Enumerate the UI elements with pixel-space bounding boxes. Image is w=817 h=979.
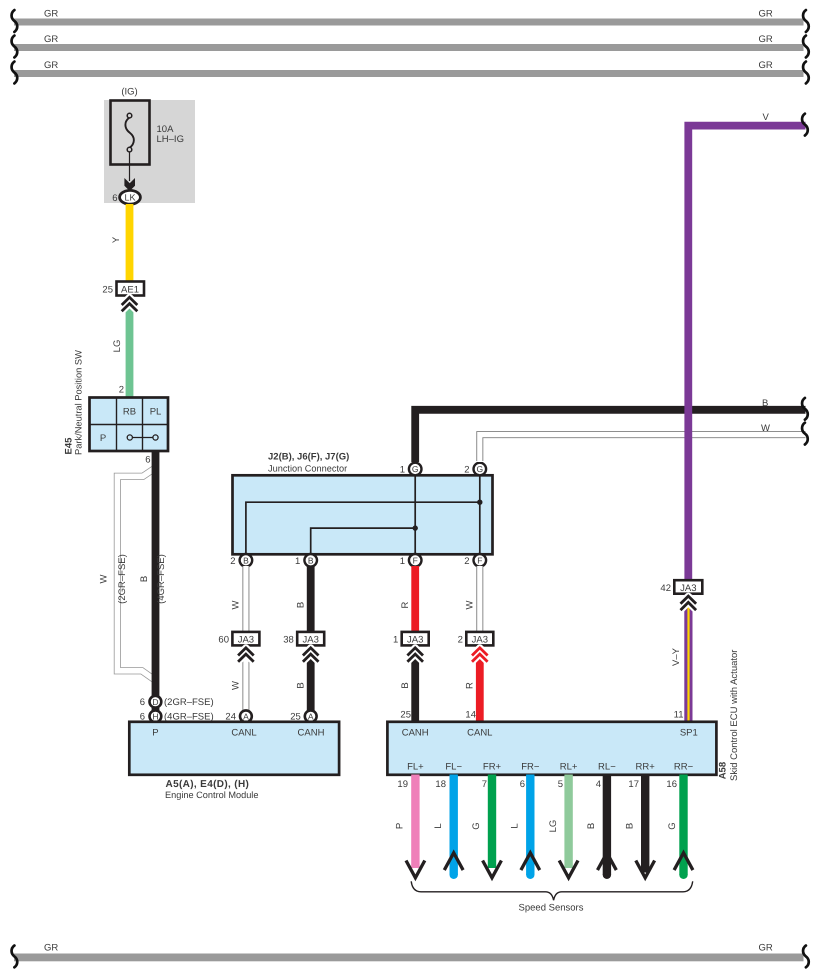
wire W horizontal top right into 2G bbox=[480, 435, 806, 462]
svg-text:P: P bbox=[395, 823, 406, 829]
svg-text:42: 42 bbox=[660, 583, 671, 594]
svg-text:J2(B), J6(F), J7(G): J2(B), J6(F), J7(G) bbox=[268, 452, 349, 463]
pin 1 F bbox=[400, 554, 422, 567]
svg-text:CANH: CANH bbox=[298, 728, 325, 739]
wire W from 2F to 2 JA3 bbox=[476, 566, 483, 632]
speed sensor wire FR- pin 6 (L blue) bbox=[510, 775, 540, 880]
wire W from 2B to 60 JA3 bbox=[242, 566, 249, 632]
svg-text:A: A bbox=[308, 711, 314, 721]
svg-text:B: B bbox=[400, 682, 411, 688]
svg-text:2: 2 bbox=[458, 635, 463, 646]
pin 2 B bbox=[230, 554, 252, 567]
svg-text:6: 6 bbox=[140, 697, 145, 708]
svg-text:B: B bbox=[308, 556, 314, 566]
svg-text:Park/Neutral Position SW: Park/Neutral Position SW bbox=[74, 350, 84, 455]
skid control ECU A58 bbox=[387, 722, 716, 775]
fuse block shaded area bbox=[104, 100, 195, 203]
chevron mark 1 JA3 bbox=[407, 648, 423, 662]
svg-text:Speed Sensors: Speed Sensors bbox=[519, 903, 584, 914]
svg-text:GR: GR bbox=[44, 34, 58, 45]
speed sensor wire RL- pin 4 (B black) bbox=[586, 775, 616, 880]
wire B horizontal top right into 1G bbox=[415, 410, 805, 462]
svg-text:W: W bbox=[761, 423, 770, 434]
svg-text:CANL: CANL bbox=[231, 728, 256, 739]
svg-text:LH–IG: LH–IG bbox=[157, 134, 184, 145]
svg-text:L: L bbox=[433, 823, 444, 828]
svg-text:RB: RB bbox=[123, 407, 136, 418]
wire W from 60 JA3 to 24 A bbox=[242, 646, 249, 711]
wire B from 38 JA3 to 25 A bbox=[307, 646, 315, 711]
speed sensor wire FR+ pin 7 (G green) bbox=[471, 775, 501, 878]
svg-text:2: 2 bbox=[119, 385, 124, 396]
svg-text:GR: GR bbox=[44, 9, 58, 20]
chevron mark 38 JA3 bbox=[303, 648, 319, 662]
svg-text:A: A bbox=[243, 711, 249, 721]
svg-text:G: G bbox=[471, 822, 482, 829]
speed sensor wire FL- pin 18 (L blue) bbox=[433, 775, 463, 880]
svg-text:D: D bbox=[152, 697, 158, 707]
connector 2 JA3 bbox=[458, 632, 494, 646]
svg-text:(2GR–FSE): (2GR–FSE) bbox=[164, 697, 214, 708]
break squiggle left bar3 bbox=[12, 62, 18, 84]
svg-text:B: B bbox=[295, 682, 306, 688]
junction connector J2(B), J6(F), J7(G) bbox=[233, 452, 493, 555]
svg-text:5: 5 bbox=[558, 779, 563, 790]
wire B (black) switch pin 6 down to H bbox=[152, 451, 160, 717]
svg-text:GR: GR bbox=[44, 943, 58, 954]
break squiggle left bar2 bbox=[12, 36, 18, 58]
connector 42 JA3 bbox=[660, 580, 702, 594]
svg-text:R: R bbox=[464, 682, 475, 689]
break squiggle left bar1 bbox=[12, 10, 18, 32]
svg-text:JA3: JA3 bbox=[303, 635, 319, 646]
svg-text:G: G bbox=[667, 822, 678, 829]
connector 6 D (2GR-FSE) bbox=[140, 696, 214, 708]
connector 6 H (4GR-FSE) bbox=[140, 710, 214, 722]
connector 60 JA3 bbox=[218, 632, 259, 646]
svg-text:GR: GR bbox=[759, 60, 773, 71]
connector 6 LK bbox=[112, 190, 140, 204]
ground bus bar GR 1 bbox=[14, 9, 804, 26]
wire fuse to LK bbox=[129, 152, 131, 182]
svg-text:JA3: JA3 bbox=[407, 635, 423, 646]
svg-text:B: B bbox=[243, 556, 249, 566]
svg-text:RR−: RR− bbox=[674, 762, 694, 773]
svg-text:W: W bbox=[98, 574, 109, 583]
svg-text:LK: LK bbox=[124, 193, 135, 203]
wire Y (yellow) LK to AE1 bbox=[126, 204, 134, 282]
svg-text:RR+: RR+ bbox=[636, 762, 656, 773]
connector 25 A bbox=[290, 710, 316, 722]
connector 25 AE1 bbox=[102, 282, 144, 296]
connector 38 JA3 bbox=[283, 632, 324, 646]
chevron mark 60 JA3 bbox=[238, 648, 254, 662]
svg-text:H: H bbox=[152, 711, 158, 721]
break squiggle right bottom bbox=[803, 946, 809, 968]
pin 2 F bbox=[464, 554, 486, 567]
svg-text:14: 14 bbox=[465, 710, 476, 721]
pin 1 G bbox=[400, 463, 422, 476]
svg-text:V: V bbox=[763, 112, 770, 123]
wire B from 1 JA3 to 25 CANH bbox=[411, 646, 419, 722]
ground bus bar GR 2 bbox=[14, 34, 804, 51]
svg-text:GR: GR bbox=[44, 60, 58, 71]
svg-text:FL+: FL+ bbox=[407, 762, 424, 773]
svg-text:1: 1 bbox=[400, 465, 405, 476]
svg-text:(4GR–FSE): (4GR–FSE) bbox=[156, 554, 167, 604]
wire W (2GR-FSE) hollow white band bbox=[117, 467, 157, 682]
svg-text:Skid Control ECU with Actuator: Skid Control ECU with Actuator bbox=[729, 650, 740, 781]
svg-text:P: P bbox=[152, 728, 158, 739]
svg-text:FR−: FR− bbox=[521, 762, 540, 773]
speed sensors brace bbox=[411, 881, 693, 900]
svg-text:(IG): (IG) bbox=[121, 87, 137, 98]
svg-text:CANL: CANL bbox=[467, 728, 492, 739]
svg-text:18: 18 bbox=[435, 779, 446, 790]
switch E45 Park/Neutral Position SW bbox=[90, 398, 169, 452]
svg-text:1: 1 bbox=[400, 556, 405, 567]
break squiggle W right bbox=[802, 423, 808, 445]
chevron mark AE1 bbox=[122, 297, 138, 311]
svg-text:1: 1 bbox=[393, 635, 398, 646]
svg-text:6: 6 bbox=[145, 455, 150, 466]
svg-text:A58: A58 bbox=[718, 762, 729, 779]
speed sensor wire RR- pin 16 (G green) bbox=[666, 775, 692, 880]
break squiggle B right bbox=[802, 398, 808, 420]
svg-text:P: P bbox=[100, 433, 106, 444]
svg-text:25: 25 bbox=[400, 710, 411, 721]
wire V-Y (violet/yellow) 42 JA3 to 11 SP1 bbox=[684, 595, 692, 723]
svg-text:L: L bbox=[510, 823, 521, 828]
svg-text:2: 2 bbox=[464, 465, 469, 476]
svg-text:7: 7 bbox=[482, 779, 487, 790]
fuse F1 10A LH-IG bbox=[111, 101, 184, 165]
svg-text:38: 38 bbox=[283, 635, 294, 646]
svg-text:RL−: RL− bbox=[598, 762, 616, 773]
svg-text:JA3: JA3 bbox=[472, 635, 488, 646]
svg-text:F: F bbox=[477, 556, 482, 566]
svg-text:25: 25 bbox=[102, 285, 113, 296]
svg-text:4: 4 bbox=[596, 779, 601, 790]
svg-text:JA3: JA3 bbox=[680, 583, 696, 594]
svg-text:6: 6 bbox=[520, 779, 525, 790]
svg-text:G: G bbox=[412, 464, 419, 474]
svg-text:2: 2 bbox=[464, 556, 469, 567]
svg-text:17: 17 bbox=[628, 779, 639, 790]
svg-text:CANH: CANH bbox=[402, 728, 429, 739]
svg-text:Junction Connector: Junction Connector bbox=[268, 464, 347, 474]
svg-text:FR+: FR+ bbox=[483, 762, 502, 773]
svg-text:F: F bbox=[413, 556, 418, 566]
ground bus bar GR bottom bbox=[14, 943, 804, 962]
svg-text:FL−: FL− bbox=[445, 762, 462, 773]
break squiggle right bar2 bbox=[803, 36, 809, 58]
svg-text:11: 11 bbox=[674, 710, 684, 721]
svg-text:LG: LG bbox=[112, 340, 123, 353]
chevron mark 42 JA3 bbox=[681, 596, 697, 610]
break squiggle right bar1 bbox=[803, 10, 809, 32]
connector 1 JA3 bbox=[393, 632, 429, 646]
svg-text:A5(A), E4(D), (H): A5(A), E4(D), (H) bbox=[166, 779, 250, 790]
svg-text:6: 6 bbox=[112, 193, 117, 204]
ECM A5(A), E4(D), (H) bbox=[129, 722, 339, 800]
svg-text:B: B bbox=[762, 398, 768, 409]
svg-text:60: 60 bbox=[218, 635, 229, 646]
svg-text:PL: PL bbox=[150, 407, 162, 418]
svg-text:1: 1 bbox=[295, 556, 300, 567]
svg-text:V–Y: V–Y bbox=[671, 647, 682, 666]
svg-text:R: R bbox=[400, 601, 411, 608]
svg-text:GR: GR bbox=[759, 943, 773, 954]
svg-text:(2GR–FSE): (2GR–FSE) bbox=[117, 554, 128, 604]
svg-text:GR: GR bbox=[759, 34, 773, 45]
svg-text:SP1: SP1 bbox=[680, 728, 698, 739]
svg-text:Y: Y bbox=[111, 236, 122, 243]
svg-text:W: W bbox=[464, 600, 475, 609]
svg-text:G: G bbox=[476, 464, 483, 474]
chevron mark 2 JA3 bbox=[472, 648, 488, 662]
speed sensor wire RL+ pin 5 (LG light green) bbox=[548, 775, 578, 878]
wire B from 1B to 38 JA3 bbox=[307, 566, 315, 632]
svg-text:W: W bbox=[231, 681, 242, 690]
ground bus bar GR 3 bbox=[14, 60, 804, 77]
svg-text:Engine Control Module: Engine Control Module bbox=[165, 790, 258, 800]
svg-text:B: B bbox=[586, 823, 597, 829]
svg-text:16: 16 bbox=[666, 779, 677, 790]
speed sensor wire RR+ pin 17 (B black) bbox=[624, 775, 654, 878]
arrow into LK bbox=[124, 178, 135, 191]
svg-text:JA3: JA3 bbox=[238, 635, 254, 646]
svg-text:B: B bbox=[624, 823, 635, 829]
svg-text:W: W bbox=[231, 600, 242, 609]
svg-text:B: B bbox=[295, 602, 306, 608]
wire R from 1F to 1 JA3 bbox=[411, 566, 419, 632]
wire R from 2 JA3 to 14 CANL bbox=[476, 646, 484, 722]
svg-text:GR: GR bbox=[759, 9, 773, 20]
break squiggle left bottom bbox=[12, 946, 18, 968]
connector 24 A bbox=[225, 710, 251, 722]
svg-text:LG: LG bbox=[548, 820, 559, 833]
break squiggle V right bbox=[802, 114, 808, 136]
svg-text:19: 19 bbox=[397, 779, 408, 790]
wire V (violet) from top right to 42 JA3 bbox=[688, 126, 805, 580]
wire LG (light green) AE1 to switch pin 2 bbox=[126, 296, 134, 398]
pin 2 G bbox=[464, 463, 486, 476]
break squiggle right bar3 bbox=[803, 62, 809, 84]
pin 1 B bbox=[295, 554, 317, 567]
svg-text:B: B bbox=[139, 576, 150, 582]
speed sensor wire FL+ pin 19 (P pink) bbox=[395, 775, 425, 878]
svg-text:2: 2 bbox=[230, 556, 235, 567]
svg-text:RL+: RL+ bbox=[560, 762, 578, 773]
